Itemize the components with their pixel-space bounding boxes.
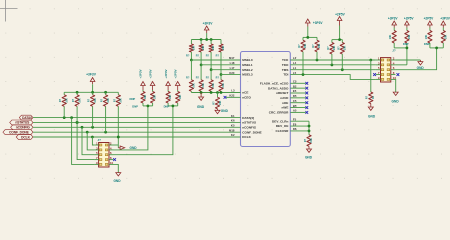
svg-text:+2P5V: +2P5V [335, 12, 346, 16]
svg-text:nCONFIG: nCONFIG [16, 126, 31, 130]
svg-text:10K: 10K [202, 83, 205, 88]
svg-text:FLASH_nCE, nCSO: FLASH_nCE, nCSO [260, 81, 289, 85]
svg-text:DATA[0]: DATA[0] [242, 116, 254, 120]
svg-text:DNP: DNP [132, 104, 138, 108]
wire net DCLK row [33, 136, 241, 139]
wire DEV_CLRn DEV_OE CLKUSR join [290, 121, 310, 135]
wire net DATA0 row [33, 116, 241, 119]
svg-text:J?: J? [98, 138, 102, 142]
svg-text:DATA1, ASDO: DATA1, ASDO [268, 86, 289, 90]
svg-text:R?: R? [312, 44, 315, 48]
svg-text:R?: R? [186, 77, 190, 80]
svg-text:GND: GND [197, 105, 205, 109]
svg-text:R?: R? [206, 77, 210, 80]
wire MSEL0 row [191, 59, 240, 61]
svg-text:+2P5V: +2P5V [424, 17, 435, 21]
connector J1 JTAG header 2x5 [376, 49, 397, 82]
resistor R TDO pull-up 10K [327, 40, 336, 65]
svg-text:GND: GND [130, 146, 138, 150]
svg-text:TDI: TDI [283, 73, 288, 77]
svg-text:nCONFIG: nCONFIG [242, 125, 257, 129]
no-connect J1 pin 8 [397, 73, 400, 76]
wire rail pairA-left/pairA-right [394, 43, 408, 49]
wire nSTATUS to J2 pin 7 [77, 122, 94, 159]
ground GND (TCK pulldown) [368, 104, 376, 119]
svg-text:+3P3V: +3P3V [164, 69, 168, 78]
ground GND (J1 pin 10) [392, 79, 400, 103]
svg-text:+3P3V: +3P3V [139, 69, 143, 78]
wire J2 pin 4 to DNP pair 1 [114, 106, 148, 150]
power +3P3V (TCK TDI pullups) [306, 19, 324, 27]
svg-text:R?: R? [72, 98, 75, 102]
svg-text:R?: R? [206, 54, 210, 57]
svg-text:nWE: nWE [282, 106, 289, 110]
resistor R1 pull-up 10K (net row 1) [59, 92, 68, 117]
svg-text:R?: R? [366, 95, 369, 99]
no-connect IC right pin 7 [290, 92, 308, 95]
svg-text:R?: R? [216, 54, 220, 57]
svg-text:DNP: DNP [424, 42, 430, 46]
svg-text:10K: 10K [408, 35, 411, 40]
IC U1 left pin names and numbers [229, 56, 262, 139]
wire net TCK [290, 59, 376, 62]
power +3F3V (MSEL pullups) [203, 21, 214, 33]
svg-text:10K: 10K [94, 98, 97, 103]
svg-text:+3P3V: +3P3V [440, 17, 450, 21]
svg-text:TCK: TCK [282, 58, 289, 62]
wire rail pair 1 [143, 103, 153, 107]
svg-text:GND: GND [113, 179, 121, 183]
wire MSEL3 row [221, 74, 241, 76]
wire nCE pin stub [240, 92, 242, 94]
resistor R TMS pull-up 10K [337, 40, 346, 70]
power +2P5V (pairB-left) [424, 17, 435, 28]
resistor R pair1B [151, 90, 157, 103]
no-connect IC right pin 10 [290, 106, 308, 109]
resistor R CLKUSR pull-down 10K [304, 135, 313, 147]
wire rail pair 2 [168, 103, 178, 107]
wire net CONF_DONE row [33, 131, 241, 134]
resistor R MSEL0 pull-down 10K (DNP) [186, 60, 195, 93]
svg-text:R?: R? [298, 44, 301, 48]
svg-text:R?: R? [59, 98, 62, 102]
svg-text:R?: R? [337, 46, 340, 50]
svg-text:nSTATUS: nSTATUS [15, 121, 30, 125]
label DNP (pairB-left) [424, 42, 430, 46]
svg-text:+2P5V: +2P5V [148, 69, 152, 78]
wire net nSTATUS row [33, 121, 241, 124]
svg-text:R?: R? [216, 77, 220, 80]
svg-text:10K: 10K [193, 46, 196, 51]
svg-text:DATA0: DATA0 [22, 116, 32, 120]
hierarchical labels DATA0 nSTATUS nCONFIG CONF_DONE DCLK [3, 115, 33, 139]
svg-text:10K: 10K [154, 95, 157, 100]
svg-text:10K: 10K [425, 35, 428, 40]
wire net nCONFIG row [33, 126, 241, 129]
wire nCONFIG to J2 pin 5 [82, 127, 94, 154]
svg-text:DNP: DNP [403, 42, 409, 46]
svg-text:10K: 10K [310, 138, 313, 143]
label DNP (left group) [130, 97, 136, 101]
ground GND (CLKUSR pulldown) [305, 146, 313, 159]
resistor R pairA-right [405, 28, 411, 44]
svg-text:CLKUSR: CLKUSR [276, 129, 290, 133]
no-connect IC right pin 9 [290, 101, 308, 104]
wire J1 pin 4 to DNP pair A [395, 48, 407, 65]
ground GND (MSEL pulldown bus) [197, 93, 205, 109]
svg-text:+2P5V: +2P5V [173, 69, 177, 78]
wire J1 pin 2 to GND [395, 59, 420, 61]
svg-text:DNP: DNP [164, 104, 170, 108]
svg-text:+2P5V: +2P5V [404, 17, 415, 21]
ground GND (J1 pin 2) [417, 60, 425, 70]
svg-text:DEV_CLRn: DEV_CLRn [272, 119, 288, 123]
svg-text:nOE: nOE [282, 101, 288, 105]
label DNP (pair 1) [132, 104, 138, 108]
svg-text:R?: R? [101, 98, 104, 102]
wire rail pairB-left/pairB-right [430, 43, 443, 49]
label DNP (pairA-left) [403, 42, 409, 46]
svg-text:R?: R? [212, 101, 215, 105]
resistor R MSEL1 pull-down 10K (DNP) [196, 65, 205, 93]
wire +3F3V bus (left group) [64, 84, 118, 93]
resistor R pairA-left [389, 28, 396, 44]
svg-text:R?: R? [304, 138, 307, 142]
svg-text:DEV_OE: DEV_OE [276, 124, 289, 128]
svg-text:R?: R? [327, 46, 330, 50]
no-connect IC right pin 11 [290, 111, 308, 114]
resistor R2 pull-up 10K (net row 2) [72, 92, 81, 122]
resistor R4 pull-up 10K (net row 4) [101, 92, 110, 132]
svg-text:nCE: nCE [242, 91, 248, 95]
svg-text:DCLK: DCLK [242, 135, 251, 139]
wire CONF_DONE to J2 pin 3 [87, 132, 94, 150]
svg-text:J?: J? [392, 49, 396, 53]
power +3P3V (pairA-left) [388, 17, 399, 28]
no-connect IC right pin 6 [290, 87, 308, 90]
wire J1 pin 6 to DNP pair B [395, 48, 436, 70]
svg-text:10K: 10K [78, 98, 81, 103]
svg-text:10K: 10K [304, 44, 307, 49]
svg-text:nAVD: nAVD [280, 96, 289, 100]
svg-text:10K: 10K [120, 98, 123, 103]
svg-text:10K: 10K [445, 35, 448, 40]
svg-text:R?: R? [186, 54, 190, 57]
svg-text:MSEL0: MSEL0 [242, 58, 253, 62]
wire MSEL pulldown bus / nCE net [191, 91, 240, 94]
svg-text:10K: 10K [389, 35, 392, 40]
svg-text:10K: 10K [212, 46, 215, 51]
sheet origin crosshair [0, 0, 18, 22]
sheet background [0, 0, 450, 188]
svg-text:10K: 10K [169, 95, 172, 100]
ground GND at J2 pin 2 [118, 145, 137, 150]
svg-text:CONF_DONE: CONF_DONE [242, 130, 261, 134]
wire net TDI [290, 73, 376, 79]
resistor R MSEL3 pull-up 10K [216, 40, 225, 76]
IC U1 right pin names and numbers [260, 56, 297, 133]
svg-text:10K: 10K [202, 46, 205, 51]
svg-text:DNP: DNP [130, 97, 136, 101]
svg-text:10K: 10K [318, 44, 321, 49]
svg-text:R?: R? [196, 54, 200, 57]
no-connect IC right pin 8 [290, 96, 308, 99]
resistor R MSEL1 pull-up 10K [196, 40, 205, 67]
power +2P5V (TDO TMS pullups) [335, 12, 346, 25]
svg-text:R?: R? [88, 98, 91, 102]
svg-text:10K: 10K [66, 98, 69, 103]
resistor R TDI pull-up 10K [298, 37, 307, 74]
no-connect IC right pin 5 [290, 82, 308, 85]
svg-text:10K: 10K [333, 46, 336, 51]
svg-text:10K: 10K [193, 83, 196, 88]
svg-text:10K: 10K [144, 95, 147, 100]
svg-text:TMS: TMS [282, 68, 289, 72]
wire J2 pin 6 to DNP pair 2 [114, 106, 173, 155]
label DNP (pair 2) [164, 104, 170, 108]
svg-text:GND: GND [392, 100, 400, 104]
svg-text:MSEL3: MSEL3 [242, 73, 253, 77]
svg-text:GND: GND [368, 115, 376, 119]
resistor R pairB-right [441, 28, 447, 44]
wire net TDO [290, 63, 376, 66]
svg-text:10: 10 [110, 161, 114, 165]
svg-text:nSTATUS: nSTATUS [242, 121, 256, 125]
no-connect J2 pin 8 [113, 158, 116, 161]
resistor R nCE pull-down 10K [212, 93, 222, 109]
svg-text:+3F3V: +3F3V [86, 72, 97, 76]
svg-text:MSEL2: MSEL2 [242, 68, 253, 72]
resistor R MSEL2 pull-up 10K [206, 40, 215, 72]
wire MSEL2 row [211, 69, 240, 71]
resistor R3 pull-up 10K (net row 3) [88, 92, 97, 127]
svg-text:+3F3V: +3F3V [203, 21, 214, 25]
svg-text:+3P3V: +3P3V [313, 21, 324, 25]
wire +2P5V rail [332, 26, 342, 41]
wire net TMS [290, 68, 376, 71]
svg-text:10K: 10K [219, 101, 222, 106]
resistor R MSEL2 pull-down 10K (DNP) [206, 70, 215, 93]
svg-text:10K: 10K [222, 46, 225, 51]
svg-text:10K: 10K [222, 83, 225, 88]
svg-text:10K: 10K [179, 95, 182, 100]
resistor R MSEL3 pull-down 10K (DNP) [216, 75, 225, 93]
svg-text:R?: R? [196, 77, 200, 80]
svg-text:CONF_DONE: CONF_DONE [9, 130, 30, 134]
svg-text:1K: 1K [372, 96, 375, 99]
svg-text:CRC_ERROR: CRC_ERROR [269, 111, 289, 115]
wire DATA0 to J2 pin 9 [72, 118, 95, 165]
svg-text:R?: R? [113, 98, 116, 102]
svg-text:TDO: TDO [282, 63, 289, 67]
power +2P5V (pair 2 right) [173, 69, 180, 90]
svg-text:DCLK: DCLK [21, 135, 30, 139]
wire DCLK to J2 pin 2 [114, 136, 120, 145]
resistor R pair1A (DNP) [141, 90, 147, 103]
resistor R MSEL0 pull-up 10K [186, 40, 195, 62]
resistor R pair2B [176, 90, 182, 103]
svg-text:nRESET: nRESET [276, 91, 288, 95]
no-connect nCEO [224, 96, 241, 99]
power +2P5V (pairA-right) [404, 17, 415, 28]
resistor R5 pull-up 10K (net row 5) [113, 92, 122, 137]
wire DCLK to J2 pin 1 [92, 137, 94, 145]
power +3F3V (left pullup group) [86, 72, 97, 84]
no-connect J1 pin 7 [373, 73, 376, 76]
wire +3F3V bus MSEL [191, 33, 221, 41]
ground GND (nCE pulldown) [215, 109, 229, 114]
svg-text:10K: 10K [343, 46, 346, 51]
op IC U1 body (FPGA config block) [241, 52, 291, 147]
svg-text:10K: 10K [107, 98, 110, 103]
connector J2 AS header 2x5 [94, 138, 113, 167]
resistor R pairB-left [425, 28, 432, 44]
wire +3P3V rail [303, 27, 317, 39]
power +2P5V (pair 1 right) [148, 69, 155, 90]
power +3P3V (pair 1 left) [139, 69, 146, 90]
wire MSEL1 row [201, 64, 240, 66]
power +3P3V (pair 2 left) [164, 69, 171, 90]
svg-text:+3P3V: +3P3V [388, 17, 399, 21]
svg-text:nCEO: nCEO [242, 96, 251, 100]
resistor R pair2A (DNP) [166, 90, 172, 103]
svg-text:MSEL1: MSEL1 [242, 63, 253, 67]
resistor R TCK 1K pull-down [366, 60, 375, 104]
svg-text:GND: GND [305, 156, 313, 160]
ground GND at J2 pin 10 [113, 164, 121, 182]
resistor R TCK pull-up 10K [312, 37, 321, 60]
svg-text:GND: GND [221, 109, 229, 113]
power +3P3V (pairB-right) [440, 17, 450, 28]
svg-text:10K: 10K [212, 83, 215, 88]
